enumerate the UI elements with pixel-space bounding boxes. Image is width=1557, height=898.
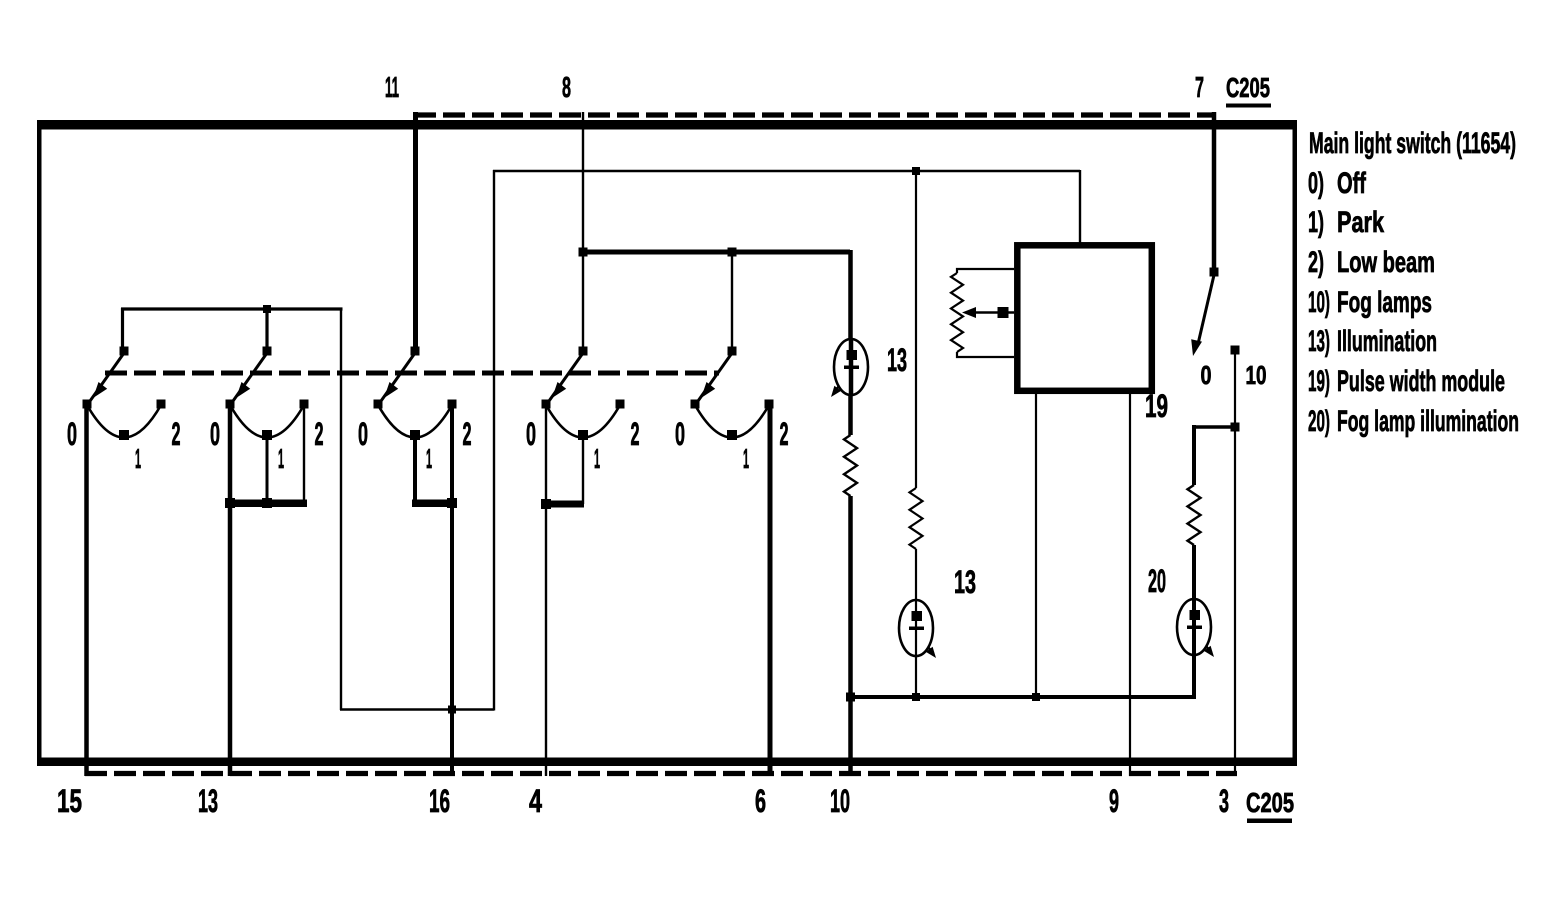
wire: pivot bus SW1-SW2 horizontal <box>121 307 343 310</box>
fog switch contact 10 <box>1231 346 1240 355</box>
wire: link y427 <box>1194 425 1236 429</box>
junction: SW2 bar left <box>225 498 235 508</box>
svg-text:Off: Off <box>1337 167 1367 200</box>
svg-text:0: 0 <box>526 416 536 452</box>
junction: y252 / SW5 pivot feed <box>728 248 737 257</box>
contact 0 <box>83 400 92 409</box>
wire: contact 10 down to pin 3 <box>1234 350 1236 776</box>
resistor (lamp13b) <box>910 488 923 549</box>
svg-text:10): 10) <box>1308 286 1330 319</box>
svg-text:1: 1 <box>278 443 284 474</box>
junction: y171 / lamp13b branch <box>912 167 920 175</box>
svg-text:13: 13 <box>954 564 976 600</box>
wire: module output right to pin 9 <box>1129 391 1131 776</box>
svg-text:1: 1 <box>426 443 432 474</box>
svg-text:0: 0 <box>210 416 220 452</box>
contact 0 <box>542 400 551 409</box>
switch arm <box>698 353 732 401</box>
wire: bus y697 to pin 10 <box>848 697 853 776</box>
svg-text:2: 2 <box>780 416 789 452</box>
svg-text:13): 13) <box>1308 325 1330 358</box>
contact 1 <box>727 430 737 440</box>
switch arm <box>381 353 415 401</box>
wire: module output left <box>1035 391 1037 698</box>
svg-text:1: 1 <box>743 443 749 474</box>
contact 2 <box>448 400 457 409</box>
legend text block <box>1308 127 1519 438</box>
svg-text:20: 20 <box>1148 563 1166 599</box>
svg-text:0: 0 <box>67 416 77 452</box>
svg-text:10: 10 <box>830 783 850 819</box>
svg-text:2: 2 <box>631 416 640 452</box>
switch mechanical link dashed line <box>105 371 719 376</box>
junction: y252 at pin8 wire <box>579 248 588 257</box>
svg-text:C205: C205 <box>1246 787 1294 818</box>
connector C205 top dashed line <box>414 112 1216 117</box>
svg-text:6: 6 <box>755 783 766 819</box>
svg-text:2: 2 <box>315 416 324 452</box>
fog switch arm <box>1191 275 1214 356</box>
svg-text:0: 0 <box>358 416 368 452</box>
switch arm <box>233 353 267 401</box>
potentiometer wiper arrow <box>966 311 1014 314</box>
svg-text:C205: C205 <box>1226 72 1270 103</box>
contact 0 <box>374 400 383 409</box>
lamp 13a (illumination) <box>834 339 868 395</box>
contact 2 <box>300 400 309 409</box>
svg-text:Low beam: Low beam <box>1337 246 1435 279</box>
wire: SW3 contact2 to pin 16 <box>450 404 454 776</box>
wire: SW1 pivot drop <box>121 308 124 348</box>
wire: feed bus y252 <box>583 250 850 255</box>
wire: feed horizontal y171 <box>493 170 1080 172</box>
potentiometer top stub <box>957 269 1014 273</box>
wire: resistor to lamp 20 <box>1192 545 1196 599</box>
wire: horizontal link y709 <box>340 708 494 710</box>
wire: SW2 pivot drop <box>265 308 268 348</box>
resistor (illumination dropping) <box>844 435 857 496</box>
svg-text:Illumination: Illumination <box>1337 325 1437 358</box>
svg-text:Park: Park <box>1337 206 1384 239</box>
svg-text:16: 16 <box>429 783 450 819</box>
wire: SW2 contact2 drop <box>303 404 305 504</box>
svg-text:15: 15 <box>57 783 82 819</box>
wire: pivot bus down leg x341 <box>340 309 342 710</box>
wire: drop into module x1080 <box>1079 170 1081 245</box>
C205 bottom underline <box>1247 819 1292 824</box>
contact 1 <box>262 430 272 440</box>
wire: fog illum chain upper <box>1192 425 1196 485</box>
svg-text:Fog lamps: Fog lamps <box>1337 286 1432 319</box>
wire: bottom bus y697 <box>849 695 1194 699</box>
svg-text:3: 3 <box>1219 783 1229 819</box>
svg-text:2: 2 <box>463 416 472 452</box>
outer box border bottom <box>37 758 1297 767</box>
svg-text:0: 0 <box>1201 360 1212 390</box>
junction: SW2 bar center <box>262 498 272 508</box>
switch contact arc <box>546 405 620 438</box>
svg-text:4: 4 <box>529 783 542 819</box>
contact 0 <box>226 400 235 409</box>
switch arm <box>549 353 583 401</box>
potentiometer bottom stub <box>957 352 1014 357</box>
junction: x850/y697 <box>846 693 855 702</box>
junction: SW4 bar left <box>541 499 551 509</box>
wire: lamp13b chain upper <box>915 171 917 488</box>
switch contact arc <box>695 405 769 438</box>
SW3 tie bar <box>412 500 456 508</box>
wire: SW4 contact1 drop <box>582 435 584 504</box>
switch contact arc <box>87 405 161 438</box>
wire: SW5 pivot feed drop <box>731 251 733 348</box>
SW4 tie bar <box>543 501 584 508</box>
potentiometer resistor <box>951 273 963 352</box>
wire: up leg x494 <box>493 170 495 711</box>
svg-text:19: 19 <box>1145 388 1168 424</box>
lamp 20 (fog lamp illumination) <box>1177 599 1211 655</box>
svg-text:10: 10 <box>1246 360 1267 390</box>
junction: SW3 bar right <box>447 498 457 508</box>
contact 1 <box>578 430 588 440</box>
resistor (fog illum) <box>1188 485 1201 545</box>
pulse width module box (19) <box>1017 245 1152 390</box>
contact 0 <box>691 400 700 409</box>
switch pivot (x=732) <box>728 347 737 356</box>
svg-text:11: 11 <box>385 72 399 104</box>
contact 2 <box>765 400 774 409</box>
wire: lamp13a to resistor <box>848 394 853 435</box>
svg-text:1: 1 <box>135 443 141 474</box>
junction: pivot bus / SW2 drop <box>263 305 271 313</box>
contact 1 <box>119 430 129 440</box>
C205 top underline <box>1226 104 1271 108</box>
wire: SW4 contact0 to pin 4 <box>545 404 547 776</box>
contact 2 <box>616 400 625 409</box>
svg-text:Main light switch (11654): Main light switch (11654) <box>1309 127 1516 160</box>
contact 2 <box>157 400 166 409</box>
pin 8 wire <box>582 112 584 348</box>
wire: lamp 20 to bus corner <box>1192 655 1196 699</box>
switch contact arc <box>230 405 304 438</box>
svg-text:7: 7 <box>1195 72 1204 104</box>
switch arm <box>90 353 124 401</box>
wire: SW2 contact0 to pin 13 <box>228 404 233 776</box>
outer box border right <box>1293 120 1298 766</box>
svg-text:20): 20) <box>1308 405 1330 438</box>
wire: SW1 contact0 to pin 15 <box>84 404 89 776</box>
svg-text:2): 2) <box>1308 246 1324 279</box>
SW2 tie bar <box>227 500 307 508</box>
svg-text:9: 9 <box>1109 783 1119 819</box>
pin 11 wire <box>413 112 418 348</box>
wire: resistor to bus y697 <box>848 496 853 698</box>
wire: lamp13a chain upper <box>848 250 853 340</box>
wire: resistor to lamp13b <box>915 549 917 601</box>
outer box border left <box>37 120 42 766</box>
svg-text:13: 13 <box>198 783 218 819</box>
svg-text:13: 13 <box>887 342 907 378</box>
switch pivot (x=267) <box>263 347 272 356</box>
svg-text:Pulse width module: Pulse width module <box>1337 365 1505 398</box>
switch pivot (x=415) <box>411 347 420 356</box>
svg-text:0: 0 <box>675 416 685 452</box>
wire: SW2 contact1 drop <box>266 435 269 503</box>
wire: lamp13b to bus <box>915 656 917 698</box>
svg-text:19): 19) <box>1308 365 1330 398</box>
switch pivot (x=583) <box>579 347 588 356</box>
svg-text:1): 1) <box>1308 206 1324 239</box>
svg-text:Fog lamp illumination: Fog lamp illumination <box>1337 405 1519 438</box>
pin 7 wire <box>1212 112 1217 273</box>
junction: x916/y697 <box>912 693 920 701</box>
junction: x1036/y697 <box>1032 693 1040 701</box>
svg-text:2: 2 <box>172 416 181 452</box>
main light switch outer box border top <box>37 120 1297 130</box>
svg-text:0): 0) <box>1308 167 1324 200</box>
svg-text:8: 8 <box>562 72 571 104</box>
junction: y709 link / pin16 wire <box>448 706 456 714</box>
svg-text:1: 1 <box>594 443 600 474</box>
switch pivot (x=124) <box>120 347 129 356</box>
wire: SW3 contact1 drop <box>413 435 417 503</box>
wire: SW5 contact2 to pin 6 <box>768 404 773 776</box>
lamp 13b (illumination) <box>899 600 933 656</box>
fog switch pivot <box>1210 268 1219 277</box>
connector C205 bottom dashed line <box>85 771 1237 776</box>
junction: x1235/y427 <box>1231 423 1240 432</box>
switch contact arc <box>378 405 452 438</box>
contact 1 <box>410 430 420 440</box>
